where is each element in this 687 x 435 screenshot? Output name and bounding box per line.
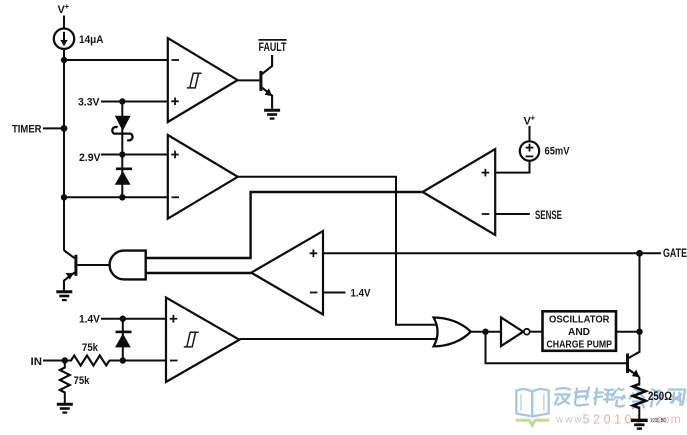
svg-text:3.3V: 3.3V xyxy=(78,96,100,108)
svg-text:14μA: 14μA xyxy=(79,34,104,46)
wire 2.9V to comp2 plus xyxy=(101,154,168,156)
resistor R3 250ohm vertical xyxy=(633,384,646,408)
wire comp4 output to AND top input xyxy=(251,192,423,258)
ground G4 xyxy=(631,420,648,428)
svg-text:GATE: GATE xyxy=(663,248,687,260)
node TIMER rail junction top xyxy=(61,57,67,63)
svg-text:1.4V: 1.4V xyxy=(351,288,372,300)
resistor R2 75k vertical xyxy=(60,368,70,393)
wire R2 top lead xyxy=(64,361,66,369)
wire zener chain vertical xyxy=(121,102,123,198)
wire R1 to comp5 minus xyxy=(109,360,166,362)
node OR output junction xyxy=(482,329,488,335)
node GATE junction xyxy=(636,250,643,257)
svg-text:+: + xyxy=(531,114,536,123)
current source I1 14uA xyxy=(54,29,74,49)
watermark url xyxy=(555,412,682,426)
svg-text:OSCILLATOR: OSCILLATOR xyxy=(549,313,610,325)
wire comp3 minus to 1.4V xyxy=(323,292,346,294)
node 3.3V junction xyxy=(119,98,125,104)
wire R2 to ground xyxy=(64,392,66,404)
oscillator block xyxy=(543,311,617,351)
wire GATE net horizontal xyxy=(323,252,661,254)
svg-text:65mV: 65mV xyxy=(545,146,571,158)
resistor R1 75k horizontal xyxy=(71,356,110,366)
wire comp2 minus rail link xyxy=(64,196,168,198)
svg-text:1.4V: 1.4V xyxy=(79,314,101,326)
wire TIMER rail xyxy=(63,49,65,251)
transistor Q3 output clamp xyxy=(626,352,640,378)
watermark chinese characters xyxy=(555,388,685,409)
node oscillator output junction xyxy=(636,329,642,335)
svg-text:TIMER: TIMER xyxy=(12,124,42,136)
comparator U3 gate amp xyxy=(251,231,323,315)
svg-text:SENSE: SENSE xyxy=(535,210,562,222)
svg-text:AND: AND xyxy=(568,326,590,338)
wire TIMER pin lead xyxy=(43,127,64,129)
wire AND output to Q2 base xyxy=(77,264,109,266)
wire IN pin lead xyxy=(43,360,72,362)
wire comp1 minus input xyxy=(64,59,168,61)
node IN junction xyxy=(62,357,68,363)
wire 3.3V to comp1 plus xyxy=(101,101,168,103)
wire 1.4V to comp5 plus xyxy=(101,318,166,320)
wire OR output to buffer xyxy=(471,331,501,333)
svg-text:2.9V: 2.9V xyxy=(79,152,101,164)
comparator U5 input schmitt xyxy=(166,298,239,383)
svg-text:+: + xyxy=(65,2,70,11)
ground G2 xyxy=(56,292,72,300)
wire oscillator box to GATE vertical xyxy=(616,331,640,333)
wire 65mV source to comp4 plus xyxy=(495,161,529,173)
ground G3 xyxy=(57,404,73,412)
wire GATE net vertical xyxy=(639,253,641,352)
svg-text:FAULT: FAULT xyxy=(259,42,287,54)
diode D2 xyxy=(115,169,132,185)
transistor Q2 timer discharge xyxy=(64,250,77,290)
comparator U4 sense xyxy=(423,149,496,235)
node 1.4V junction xyxy=(120,316,126,322)
transistor Q1 fault xyxy=(259,55,272,109)
diode D3 xyxy=(115,332,132,348)
node TIMER pin junction xyxy=(61,125,68,132)
svg-text:75k: 75k xyxy=(74,375,91,387)
wire AND top input xyxy=(146,257,252,260)
svg-text:CHARGE PUMP: CHARGE PUMP xyxy=(547,338,613,350)
wire SENSE pin lead xyxy=(495,213,530,215)
wire buffer to oscillator box xyxy=(530,331,542,333)
wire comp1 output to Q1 base xyxy=(238,79,260,81)
wire OR output to Q3 base xyxy=(486,332,627,364)
svg-text:250Ω: 250Ω xyxy=(648,391,672,403)
wire R3 to ground xyxy=(638,407,640,420)
node zener bottom junction xyxy=(119,194,125,200)
wire comp2 output to OR gate top input xyxy=(238,177,440,325)
node rail bottom junction xyxy=(61,194,67,200)
OR gate O1 xyxy=(434,318,471,347)
svg-text:75k: 75k xyxy=(82,342,99,354)
svg-text:1910 BD: 1910 BD xyxy=(650,418,667,424)
wire V+ stub to 65mV source xyxy=(529,126,531,142)
inverter buffer B1 xyxy=(501,317,530,346)
comparator U1 xyxy=(168,38,238,122)
AND gate A1 xyxy=(110,251,146,280)
wire bottom zener vertical xyxy=(122,319,124,361)
ground G1 xyxy=(264,110,280,118)
label V+ sense xyxy=(524,114,536,128)
wire comp5 output to OR bottom input xyxy=(239,338,440,340)
node comp5 minus junction xyxy=(120,357,126,363)
watermark logo book xyxy=(516,389,550,425)
wire V+ stub to current source xyxy=(63,16,65,30)
voltage source V2 65mV xyxy=(520,141,539,160)
wire Q3 emitter to R3 xyxy=(638,377,640,386)
svg-text:IN: IN xyxy=(31,356,43,368)
label V+ top xyxy=(58,2,70,16)
zener diode D1 xyxy=(112,116,132,141)
label FAULT with overline xyxy=(259,40,287,54)
node 2.9V junction xyxy=(119,151,125,157)
wire comp3 output to AND bottom input xyxy=(146,272,252,275)
comparator U2 xyxy=(168,135,238,219)
